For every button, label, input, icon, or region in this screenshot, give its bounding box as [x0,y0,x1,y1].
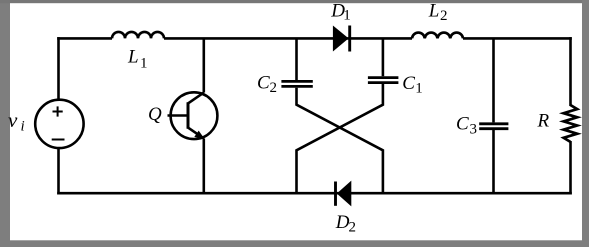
svg-text:2: 2 [349,220,357,236]
svg-text:Q: Q [148,104,162,125]
svg-text:1: 1 [343,8,351,24]
svg-text:C: C [402,73,415,94]
svg-text:L: L [127,47,139,68]
svg-text:C: C [257,73,270,94]
svg-text:2: 2 [440,8,448,24]
svg-text:L: L [428,1,440,22]
svg-text:v: v [8,108,18,132]
svg-text:1: 1 [140,56,148,72]
svg-text:i: i [21,119,25,135]
svg-text:3: 3 [470,122,478,138]
svg-text:2: 2 [270,80,278,96]
svg-text:D: D [335,212,350,233]
svg-text:R: R [537,111,550,132]
svg-text:1: 1 [415,80,423,96]
svg-text:C: C [456,113,469,134]
